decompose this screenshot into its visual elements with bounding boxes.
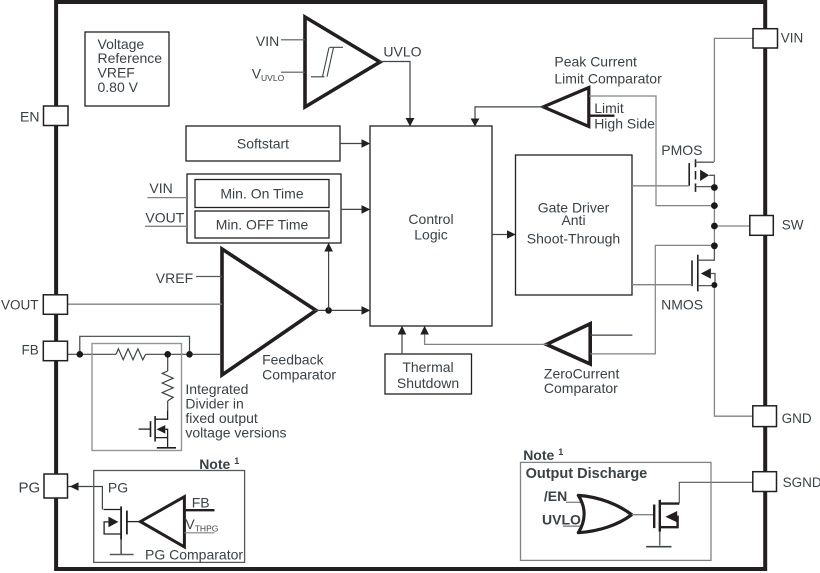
svg-text:0.80 V: 0.80 V: [98, 79, 139, 95]
block Min. OFF Time: [195, 211, 329, 238]
ground (PG note): [110, 554, 134, 556]
svg-text:High Side: High Side: [594, 116, 655, 132]
wire VIN pin to PMOS source: [714, 38, 753, 162]
label VOUT input to Min block: [145, 209, 187, 226]
svg-text:Integrated: Integrated: [185, 381, 248, 397]
svg-text:GND: GND: [782, 411, 812, 426]
svg-text:PG: PG: [108, 480, 128, 496]
block Thermal Shutdown: [385, 354, 472, 394]
svg-text:Comparator: Comparator: [262, 367, 336, 383]
svg-text:VREF: VREF: [156, 270, 193, 286]
wire OR gate to discharge FET gate: [632, 514, 655, 516]
svg-text:PG: PG: [19, 480, 41, 497]
pin GND: [753, 406, 812, 427]
svg-text:SW: SW: [782, 218, 804, 233]
wire VOUT pin to Feedback comparator: [68, 303, 223, 305]
svg-text:Anti: Anti: [561, 212, 585, 228]
wire Min boxes to Control Logic: [341, 205, 370, 214]
junction dot limit sense: [711, 202, 718, 209]
block Voltage Reference: [85, 32, 169, 106]
transistor discharge FET: [646, 500, 679, 547]
block Min. On Time: [195, 180, 329, 208]
svg-text:SGND: SGND: [783, 475, 820, 490]
wire Thermal Shutdown to Control Logic: [398, 326, 407, 354]
comparator ZeroCurrent: [547, 324, 591, 364]
comparator Peak Current Limit: [543, 88, 589, 127]
svg-text:Softstart: Softstart: [237, 136, 289, 152]
label VREF with input stub: [156, 270, 222, 286]
junction dot SW node: [711, 223, 718, 230]
transistor PMOS (high side): [661, 142, 714, 192]
junction dot bypass right: [186, 351, 193, 358]
pin PG: [19, 474, 68, 498]
wire NMOS source to GND pin: [714, 285, 753, 416]
label VIN (uvlo comparator input): [256, 33, 305, 49]
svg-text:NMOS: NMOS: [661, 297, 703, 313]
svg-text:VOUT: VOUT: [1, 298, 39, 313]
junction dot divider mid: [164, 351, 171, 358]
svg-text:PMOS: PMOS: [661, 142, 702, 158]
box Output Discharge note: [521, 462, 712, 560]
svg-text:VIN: VIN: [256, 33, 279, 49]
svg-text:Control: Control: [408, 211, 453, 227]
svg-text:Output Discharge: Output Discharge: [526, 466, 648, 482]
svg-text:Limit Comparator: Limit Comparator: [554, 71, 662, 87]
junction dot NMOS source: [711, 282, 717, 288]
svg-text:Shutdown: Shutdown: [397, 375, 459, 391]
label VTHPG input (PG comparator): [184, 516, 218, 534]
svg-text:FB: FB: [22, 343, 39, 358]
wire discharge FET drain to SGND pin: [679, 482, 753, 503]
svg-text:Note 1: Note 1: [523, 447, 563, 463]
junction dot comparator output: [325, 307, 332, 314]
wire ZeroCurrent output to Control Logic: [420, 326, 547, 345]
wire PG comparator output to PG pin: [68, 482, 103, 509]
label FB input (PG comparator): [184, 494, 214, 510]
label VIN input to Min block: [148, 180, 188, 198]
label Peak Current Limit Comparator: [554, 54, 662, 87]
label /EN input: [544, 488, 581, 504]
svg-text:VREF: VREF: [98, 65, 135, 81]
comparator Feedback: [222, 249, 316, 375]
wire switch node PMOS drain to NMOS drain: [713, 188, 715, 247]
label Feedback Comparator: [262, 352, 336, 383]
transistor NMOS (low side): [661, 246, 715, 313]
svg-text:Thermal: Thermal: [402, 359, 453, 375]
junction dot NMOS drain: [711, 242, 718, 249]
svg-text:VOUT: VOUT: [145, 209, 184, 225]
svg-text:PG Comparator: PG Comparator: [145, 546, 243, 562]
svg-text:fixed output: fixed output: [185, 410, 257, 426]
svg-text:/EN: /EN: [544, 488, 567, 504]
block Min On/OFF Time outer: [187, 174, 341, 243]
svg-text:Limit: Limit: [594, 100, 624, 116]
wire Feedback comparator output to Control Logic: [314, 306, 370, 315]
label Integrated Divider: [185, 381, 286, 441]
comparator UVLO (with hysteresis): [305, 17, 380, 107]
wire Control Logic to Gate Driver: [492, 230, 516, 239]
label VUVLO (uvlo comparator input): [252, 65, 305, 83]
pin SW: [750, 216, 804, 236]
OR gate U2 (output discharge): [578, 495, 631, 532]
resistor R2 (vertical, divider bottom): [162, 354, 173, 410]
svg-text:UVLO: UVLO: [383, 43, 421, 59]
svg-text:VIN: VIN: [781, 31, 804, 46]
svg-text:Min. On Time: Min. On Time: [220, 185, 303, 201]
block Softstart: [186, 126, 340, 161]
junction dot FB near pin: [77, 351, 84, 358]
wire ZeroCurrent reference stub: [590, 334, 632, 336]
wire FB bypass loop: [80, 336, 190, 354]
svg-text:UVLO: UVLO: [542, 512, 581, 528]
svg-text:Divider in: Divider in: [185, 395, 243, 411]
pin VOUT: [1, 295, 68, 315]
svg-text:Note 1: Note 1: [199, 456, 239, 472]
resistor R1 (horizontal, divider top): [116, 349, 146, 360]
wire Peak Limit comparator sense input from PMOS drain: [589, 96, 712, 206]
svg-text:Peak Current: Peak Current: [554, 54, 637, 70]
ground (discharge FET): [646, 546, 671, 548]
wire comparator output up to Min block: [324, 243, 333, 311]
pin EN: [20, 106, 68, 126]
label ZeroCurrent Comparator: [544, 366, 620, 397]
svg-text:Min. OFF Time: Min. OFF Time: [216, 217, 309, 233]
svg-text:Logic: Logic: [414, 227, 447, 243]
pin VIN: [753, 29, 803, 48]
wire FB net with resistor R1: [68, 349, 223, 360]
svg-text:Shoot-Through: Shoot-Through: [527, 231, 620, 247]
wire switch node to SW pin: [714, 225, 750, 227]
block Control Logic: [370, 126, 492, 326]
pin SGND: [753, 472, 820, 492]
pin FB: [22, 341, 68, 361]
wire Gate Driver to PMOS gate: [632, 185, 689, 187]
wire Softstart to Control Logic: [340, 139, 370, 148]
svg-text:VIN: VIN: [149, 180, 172, 196]
svg-text:FB: FB: [192, 494, 210, 510]
wire Gate Driver to NMOS gate: [632, 284, 692, 286]
transistor integrated divider MOSFET: [139, 410, 176, 447]
svg-text:Comparator: Comparator: [544, 380, 618, 396]
svg-text:ZeroCurrent: ZeroCurrent: [544, 366, 620, 382]
label Limit / High Side with input stub: [589, 100, 655, 131]
wire ZeroCurrent sense from NMOS drain: [590, 245, 712, 354]
wire UVLO output to Control Logic: [379, 62, 414, 127]
block Gate Driver Anti Shoot-Through: [516, 155, 633, 295]
wire Peak Limit comparator output to Control Logic: [471, 107, 544, 127]
comparator PG: [140, 497, 184, 547]
svg-text:Feedback: Feedback: [262, 352, 324, 368]
box integrated divider (gray): [92, 344, 182, 451]
svg-text:voltage versions: voltage versions: [185, 425, 286, 441]
transistor PG note MOSFET: [104, 506, 141, 554]
svg-text:EN: EN: [20, 108, 39, 124]
box PG note: [94, 471, 245, 563]
junction dot PMOS drain: [711, 184, 718, 191]
label UVLO input: [542, 512, 581, 528]
